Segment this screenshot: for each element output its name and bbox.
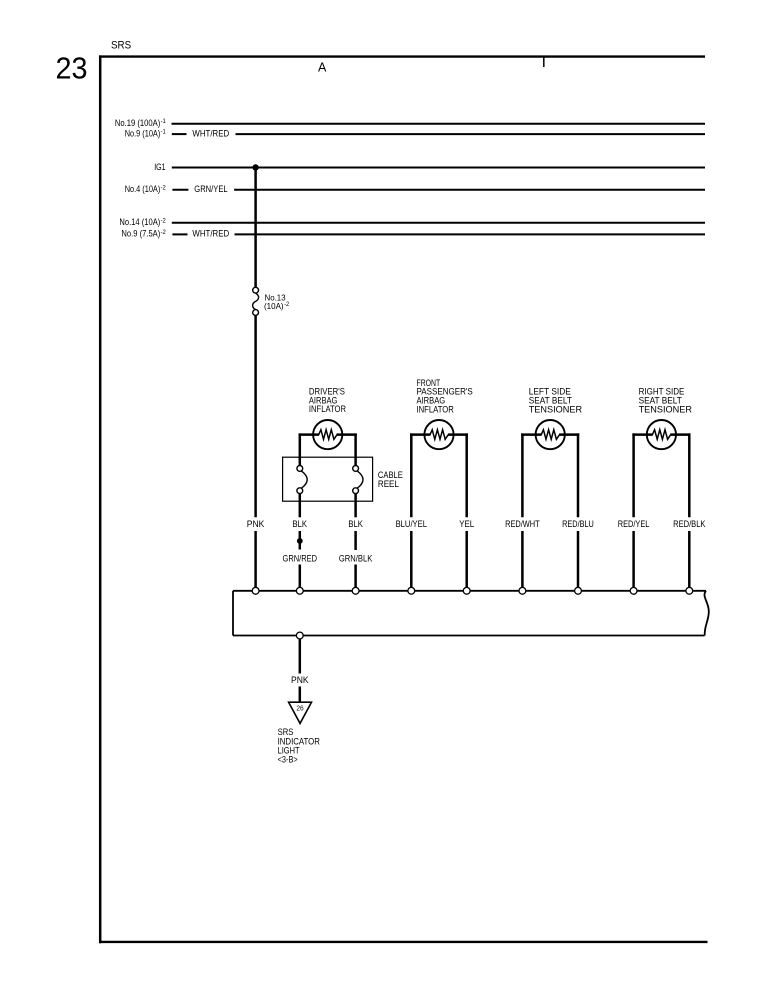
- wire passenger right vertical (YEL): [465, 433, 468, 517]
- wire driver right below cable reel (BLK): [354, 494, 357, 518]
- wire driver squib left horizontal: [299, 433, 319, 436]
- connector pin (RED/WHT): [519, 587, 526, 594]
- fuse No.14 (10A) label: [119, 217, 166, 227]
- svg-text:RED/BLU: RED/BLU: [562, 519, 594, 529]
- wire YEL to SRS unit: [465, 531, 468, 587]
- wire BLK mid segment: [354, 531, 357, 550]
- svg-text:BLU/YEL: BLU/YEL: [396, 519, 427, 529]
- svg-text:PNK: PNK: [291, 675, 309, 685]
- fuse No.9 (7.5A) label: [121, 229, 166, 239]
- svg-text:WHT/RED: WHT/RED: [192, 229, 229, 239]
- frame bottom border: [99, 941, 708, 943]
- connector pin (BLU/YEL): [408, 587, 415, 594]
- svg-text:WHT/RED: WHT/RED: [192, 128, 229, 138]
- svg-text:RED/WHT: RED/WHT: [505, 519, 540, 529]
- frame top border: [99, 55, 705, 57]
- connector pin (GRN/RED): [296, 587, 303, 594]
- fuse No.19 (100A) label: [115, 118, 166, 128]
- junction dot on IG1: [252, 164, 258, 170]
- wire stub No.4: [172, 189, 188, 191]
- svg-text:GRN/RED: GRN/RED: [283, 553, 318, 563]
- connector pin (YEL): [463, 587, 470, 594]
- wire stub No.9: [172, 133, 187, 135]
- wire left tensioner left vertical (RED/WHT): [521, 433, 524, 517]
- svg-text:BLK: BLK: [293, 519, 308, 529]
- wire driver left below cable reel (BLK): [299, 494, 302, 518]
- wire BLK to splice: [299, 531, 302, 550]
- squib front passenger's airbag inflator: [424, 420, 453, 449]
- wire right tensioner squib right horizontal: [670, 433, 690, 436]
- wire color label GRN/BLK: [339, 553, 373, 563]
- label LEFT SIDE SEAT BELT TENSIONER: [529, 387, 583, 415]
- wire right tensioner squib left horizontal: [632, 433, 652, 436]
- wire PNK to indicator: [299, 687, 302, 702]
- svg-text:GRN/BLK: GRN/BLK: [339, 553, 373, 563]
- svg-text:-2: -2: [161, 229, 167, 236]
- svg-text:26: 26: [296, 704, 303, 713]
- svg-text:PNK: PNK: [247, 519, 265, 529]
- label SRS INDICATOR LIGHT 3-B: [278, 727, 321, 764]
- SRS unit bus outline: [233, 591, 709, 636]
- wire bus No.9 WHT/RED: [236, 133, 706, 135]
- wire color label PNK (output): [291, 675, 309, 685]
- wire passenger squib right horizontal: [448, 433, 468, 436]
- wire color label BLU/YEL: [396, 519, 427, 529]
- wire right tensioner right vertical (RED/BLK): [688, 433, 691, 517]
- svg-text:-2: -2: [161, 217, 167, 224]
- wire RED/BLK to SRS unit: [688, 531, 691, 587]
- squib left side seat belt tensioner: [536, 420, 565, 449]
- wire IG1 down to fuse No.13: [254, 168, 257, 288]
- svg-text:<3-B>: <3-B>: [278, 754, 298, 764]
- svg-text:No.14 (10A): No.14 (10A): [119, 217, 160, 227]
- wire driver squib right horizontal: [337, 433, 357, 436]
- cable reel left contact: [297, 466, 307, 494]
- wire left tensioner squib right horizontal: [559, 433, 579, 436]
- wire stub No.9 7.5A: [172, 233, 187, 235]
- wire color label GRN/RED: [283, 553, 318, 563]
- node A label: [318, 61, 327, 75]
- fuse No.13 value label: [264, 292, 290, 311]
- wire driver right vertical into cable reel: [354, 433, 357, 465]
- svg-text:REEL: REEL: [378, 479, 399, 489]
- connector pin (RED/BLK): [686, 587, 693, 594]
- svg-text:No.9 (7.5A): No.9 (7.5A): [121, 229, 160, 239]
- wire RED/BLU to SRS unit: [577, 531, 580, 587]
- wire SRS unit output PNK: [299, 639, 302, 674]
- frame left border: [99, 55, 102, 943]
- wire color label YEL: [459, 519, 474, 529]
- wire RED/YEL to SRS unit: [632, 531, 635, 587]
- svg-text:-1: -1: [161, 129, 167, 136]
- wire passenger squib left horizontal: [410, 433, 430, 436]
- connector pin (GRN/BLK): [352, 587, 359, 594]
- svg-text:No.19 (100A): No.19 (100A): [115, 118, 160, 128]
- wire left tensioner right vertical (RED/BLU): [577, 433, 580, 517]
- squib driver's airbag inflator: [313, 420, 342, 449]
- connector pin A (PNK): [252, 587, 259, 594]
- wire color label RED/YEL: [618, 519, 650, 529]
- fuse No.4 (10A) label: [125, 184, 167, 194]
- svg-text:-2: -2: [161, 184, 167, 191]
- wire color label PNK: [247, 519, 265, 529]
- svg-text:INFLATOR: INFLATOR: [417, 404, 455, 414]
- wire GRN/RED to SRS unit: [299, 565, 302, 588]
- connector pin (RED/YEL): [630, 587, 637, 594]
- svg-text:IG1: IG1: [154, 162, 165, 172]
- title SRS: [111, 40, 131, 52]
- svg-text:GRN/YEL: GRN/YEL: [194, 184, 227, 194]
- wire BLU/YEL to SRS unit: [410, 531, 413, 587]
- wire color label WHT/RED (lower): [192, 229, 229, 239]
- svg-text:TENSIONER: TENSIONER: [639, 404, 693, 414]
- splice dot GRN/RED: [297, 538, 303, 544]
- wire bus No.14: [172, 222, 705, 224]
- svg-text:SRS: SRS: [111, 40, 131, 52]
- wire right tensioner left vertical (RED/YEL): [632, 433, 635, 517]
- wire bus IG1: [172, 167, 705, 169]
- wire RED/WHT to SRS unit: [521, 531, 524, 587]
- svg-text:YEL: YEL: [459, 519, 474, 529]
- net IG1 label: [154, 162, 165, 172]
- wire PNK to SRS unit: [254, 531, 257, 587]
- label FRONT PASSENGER'S AIRBAG INFLATOR: [417, 378, 473, 414]
- wire color label BLK (right): [348, 519, 363, 529]
- page number 23: [56, 51, 88, 86]
- cable reel box: [283, 457, 373, 501]
- wire left tensioner squib left horizontal: [521, 433, 541, 436]
- connector pin output (PNK bottom): [296, 632, 303, 639]
- connector pin (RED/BLU): [575, 587, 582, 594]
- connector arrow 26 (to SRS indicator light): [289, 702, 312, 723]
- svg-text:(10A): (10A): [264, 301, 284, 311]
- wire fuse No.13 down (PNK): [254, 315, 257, 517]
- wire color label RED/BLK: [673, 519, 706, 529]
- wire color label BLK (left): [293, 519, 308, 529]
- wire driver left vertical into cable reel: [299, 433, 302, 465]
- fuse No.13 symbol: [253, 287, 259, 315]
- label DRIVER'S AIRBAG INFLATOR: [309, 387, 346, 415]
- svg-text:23: 23: [56, 51, 88, 86]
- svg-text:TENSIONER: TENSIONER: [529, 404, 583, 414]
- wire bus No.9 7.5A WHT/RED: [235, 233, 706, 235]
- wire bus No.19: [172, 123, 706, 125]
- svg-text:RED/YEL: RED/YEL: [618, 519, 650, 529]
- wire color label WHT/RED (top): [192, 128, 229, 138]
- svg-text:No.4 (10A): No.4 (10A): [125, 184, 161, 194]
- svg-text:RED/BLK: RED/BLK: [673, 519, 706, 529]
- squib right side seat belt tensioner: [647, 420, 676, 449]
- svg-text:No.9 (10A): No.9 (10A): [125, 128, 161, 138]
- wire passenger left vertical (BLU/YEL): [410, 433, 413, 517]
- fuse No.9 (10A) label: [125, 128, 167, 138]
- wire color label GRN/YEL: [194, 184, 227, 194]
- label RIGHT SIDE SEAT BELT TENSIONER: [639, 387, 693, 415]
- wire color label RED/BLU: [562, 519, 594, 529]
- svg-text:-2: -2: [284, 302, 290, 308]
- label CABLE REEL: [378, 470, 403, 489]
- cable reel right contact: [353, 466, 363, 494]
- svg-text:-1: -1: [161, 118, 167, 125]
- svg-text:A: A: [318, 61, 327, 75]
- wire color label RED/WHT: [505, 519, 540, 529]
- tick mark on top border: [543, 57, 545, 68]
- wire bus No.4 GRN/YEL: [234, 189, 705, 191]
- wire GRN/BLK to SRS unit: [354, 565, 357, 588]
- svg-text:INFLATOR: INFLATOR: [309, 404, 346, 414]
- svg-text:BLK: BLK: [348, 519, 363, 529]
